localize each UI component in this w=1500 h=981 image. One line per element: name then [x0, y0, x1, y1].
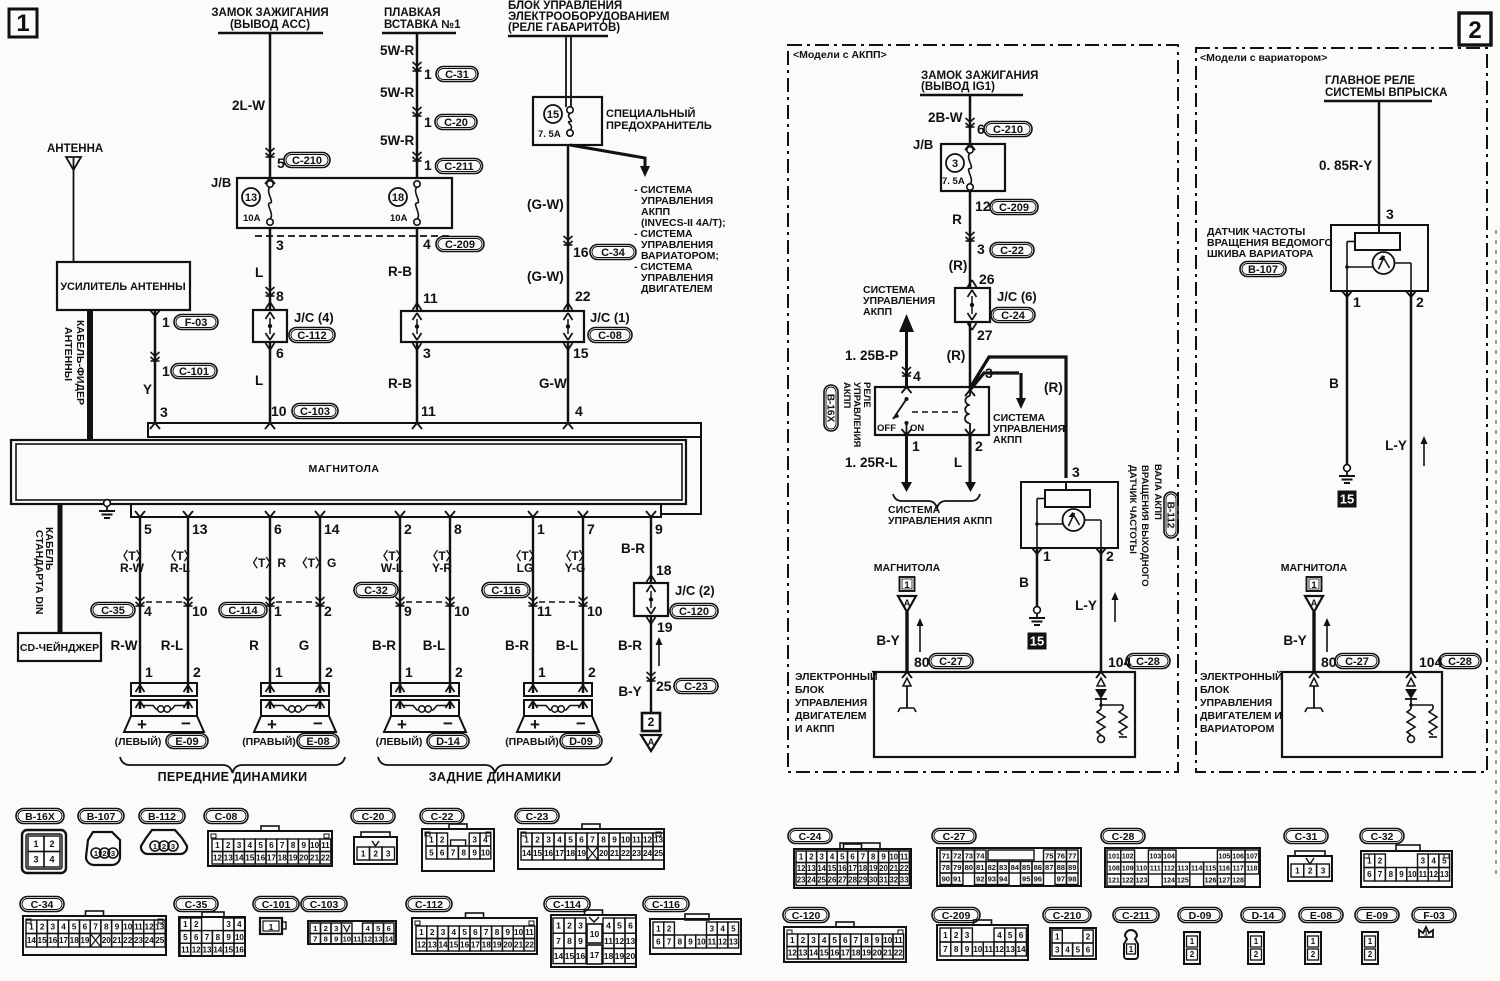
svg-text:18: 18 — [70, 936, 80, 945]
svg-text:2: 2 — [374, 850, 379, 859]
svg-text:УПРАВЛЕНИЯ: УПРАВЛЕНИЯ — [795, 697, 867, 709]
wire B from sensor pin 1 to ground 15 — [1036, 548, 1039, 607]
svg-text:118: 118 — [1246, 866, 1257, 873]
svg-text:2: 2 — [567, 921, 572, 931]
svg-text:1: 1 — [1367, 857, 1372, 866]
svg-text:19: 19 — [657, 619, 673, 635]
wire B-Y from magnitola ref to ECU pin 80 CVT — [1312, 612, 1315, 672]
svg-text:3: 3 — [160, 404, 168, 420]
svg-text:121: 121 — [1108, 878, 1120, 885]
svg-text:13: 13 — [192, 521, 208, 537]
svg-text:10: 10 — [192, 603, 208, 619]
connector pinout C-28 — [1101, 829, 1145, 844]
svg-text:98: 98 — [1068, 875, 1076, 884]
svg-text:5: 5 — [429, 849, 434, 858]
svg-text:A: A — [904, 598, 911, 608]
svg-text:1: 1 — [1353, 294, 1361, 310]
svg-text:−: − — [576, 714, 586, 733]
svg-text:14: 14 — [438, 941, 448, 950]
svg-text:4: 4 — [144, 603, 152, 619]
svg-text:R: R — [249, 638, 259, 653]
svg-text:9: 9 — [334, 935, 338, 944]
svg-text:3: 3 — [441, 928, 446, 937]
svg-text:10: 10 — [587, 603, 603, 619]
svg-text:<Модели с вариатором>: <Модели с вариатором> — [1200, 52, 1327, 64]
svg-text:10: 10 — [235, 933, 244, 942]
svg-text:C-28: C-28 — [1136, 656, 1160, 668]
svg-text:C-22: C-22 — [1000, 245, 1024, 257]
svg-text:11: 11 — [537, 603, 552, 619]
svg-text:18: 18 — [604, 951, 614, 961]
svg-text:5: 5 — [1008, 931, 1013, 940]
svg-text:7: 7 — [484, 928, 489, 937]
magnitola outer frame right side — [661, 437, 701, 514]
svg-text:3: 3 — [546, 836, 551, 845]
junction connector J/C(4) C-112 — [253, 310, 287, 342]
connector pinout C-24 — [788, 829, 832, 844]
driven pulley speed sensor B-107 box — [1331, 225, 1428, 291]
connector label C-27 pin 80 CVT — [1335, 654, 1379, 669]
svg-text:B-Y: B-Y — [618, 684, 641, 699]
svg-text:B: B — [1019, 575, 1029, 590]
svg-text:1: 1 — [29, 923, 34, 932]
svg-text:26: 26 — [979, 271, 995, 287]
svg-text:B-Y: B-Y — [1283, 633, 1306, 648]
wire Y from amplifier to magnitola pin 3 — [154, 310, 157, 423]
svg-text:6: 6 — [83, 923, 88, 932]
svg-text:+: + — [397, 715, 407, 734]
svg-text:2: 2 — [49, 839, 54, 849]
svg-text:19: 19 — [80, 936, 90, 945]
svg-text:1: 1 — [1368, 937, 1373, 946]
svg-text:9: 9 — [578, 936, 583, 946]
svg-text:10: 10 — [310, 841, 320, 850]
svg-text:Y-R: Y-R — [432, 561, 452, 575]
svg-text:ЗАМОК ЗАЖИГАНИЯ: ЗАМОК ЗАЖИГАНИЯ — [211, 7, 328, 19]
svg-text:15: 15 — [1030, 634, 1044, 649]
svg-text:7: 7 — [1378, 870, 1383, 879]
ground at magnitola — [106, 499, 108, 501]
svg-text:9: 9 — [472, 849, 477, 858]
wire speaker pin 13 — [183, 511, 188, 517]
wire G-W from J/C(1) to magnitola pin 4 — [567, 342, 570, 423]
svg-text:10: 10 — [889, 853, 898, 862]
svg-text:25: 25 — [656, 678, 672, 694]
svg-text:21: 21 — [610, 849, 620, 858]
connector label C-116 — [482, 583, 530, 598]
svg-text:ВРАЩЕНИЯ ВЫХОДНОГО: ВРАЩЕНИЯ ВЫХОДНОГО — [1139, 465, 1150, 587]
svg-text:15: 15 — [38, 936, 48, 945]
connector label B-16X rotated — [824, 385, 838, 431]
svg-text:8: 8 — [454, 521, 462, 537]
svg-text:G: G — [299, 638, 310, 653]
svg-text:2: 2 — [440, 836, 445, 845]
svg-text:7: 7 — [861, 853, 865, 862]
svg-text:11: 11 — [353, 935, 362, 944]
svg-text:11: 11 — [604, 936, 613, 946]
svg-text:4: 4 — [822, 936, 827, 945]
svg-text:АКПП: АКПП — [841, 382, 852, 408]
wire L from J/C(4) to magnitola pin 10 — [269, 342, 272, 423]
CVT panel dash-dot border — [1196, 48, 1487, 772]
svg-text:22: 22 — [900, 864, 909, 873]
svg-text:32: 32 — [889, 876, 898, 885]
connector pinout C-120 — [783, 908, 829, 923]
CD standard DIN cable thick wire — [58, 504, 63, 633]
svg-text:ЭЛЕКТРОННЫЙ: ЭЛЕКТРОННЫЙ — [1200, 670, 1283, 683]
svg-text:16: 16 — [235, 945, 244, 954]
dashed connector pair links — [146, 601, 182, 603]
svg-text:D-09: D-09 — [1189, 910, 1212, 922]
svg-text:88: 88 — [1057, 863, 1065, 872]
wire 2B-W to J/B fuse 3 — [969, 95, 972, 144]
wire speaker pin 14 — [315, 511, 320, 517]
svg-text:17: 17 — [848, 864, 857, 873]
svg-text:C-112: C-112 — [297, 330, 326, 342]
antenna amplifier box (УСИЛИТЕЛЬ АНТЕННЫ) — [57, 262, 190, 310]
svg-text:11: 11 — [181, 945, 190, 954]
connector pinout F-03 — [1412, 908, 1456, 923]
svg-text:14: 14 — [234, 854, 244, 863]
svg-text:OFF: OFF — [877, 423, 896, 434]
svg-text:C-210: C-210 — [993, 124, 1023, 136]
svg-text:96: 96 — [1034, 875, 1042, 884]
svg-text:ПЕРЕДНИЕ ДИНАМИКИ: ПЕРЕДНИЕ ДИНАМИКИ — [158, 770, 308, 784]
svg-text:5W-R: 5W-R — [380, 85, 414, 100]
svg-text:108: 108 — [1108, 866, 1120, 873]
svg-text:(РЕЛЕ ГАБАРИТОВ): (РЕЛЕ ГАБАРИТОВ) — [508, 22, 620, 34]
svg-text:9: 9 — [612, 836, 617, 845]
svg-text:7: 7 — [205, 933, 210, 942]
svg-text:D-14: D-14 — [436, 736, 461, 748]
svg-text:80: 80 — [965, 863, 973, 872]
svg-text:17: 17 — [555, 849, 565, 858]
svg-text:8: 8 — [864, 936, 869, 945]
svg-text:114: 114 — [1191, 866, 1202, 873]
svg-text:УПРАВЛЕНИЯ: УПРАВЛЕНИЯ — [1200, 697, 1272, 709]
svg-text:5: 5 — [568, 836, 573, 845]
connector pinout C-211 — [1113, 908, 1159, 923]
svg-text:10: 10 — [271, 403, 287, 419]
svg-text:2L-W: 2L-W — [232, 98, 265, 113]
svg-text:11: 11 — [984, 945, 993, 954]
svg-text:1: 1 — [1190, 937, 1195, 946]
svg-text:1: 1 — [656, 924, 661, 933]
svg-text:C-32: C-32 — [1371, 831, 1394, 843]
svg-text:103: 103 — [1149, 854, 1161, 861]
svg-text:2: 2 — [1416, 294, 1424, 310]
svg-text:4: 4 — [913, 368, 921, 384]
svg-text:16: 16 — [48, 936, 58, 945]
svg-text:1: 1 — [405, 664, 413, 680]
svg-text:L: L — [255, 373, 263, 388]
svg-text:82: 82 — [988, 863, 996, 872]
svg-text:11: 11 — [708, 937, 717, 946]
svg-text:13: 13 — [1440, 870, 1449, 879]
svg-text:(ВЫВОД АСС): (ВЫВОД АСС) — [230, 19, 310, 31]
svg-text:8: 8 — [495, 928, 500, 937]
svg-text:8: 8 — [104, 923, 109, 932]
svg-text:2: 2 — [102, 849, 106, 858]
svg-text:77: 77 — [1068, 852, 1076, 861]
connector pinout C-112 — [406, 897, 452, 912]
svg-text:7: 7 — [587, 521, 595, 537]
svg-text:15: 15 — [573, 345, 589, 361]
svg-text:18: 18 — [656, 562, 672, 578]
svg-text:C-101: C-101 — [179, 366, 209, 378]
svg-text:3: 3 — [1055, 945, 1060, 954]
svg-text:4: 4 — [423, 236, 431, 252]
svg-text:17: 17 — [590, 950, 600, 960]
svg-text:4: 4 — [61, 923, 66, 932]
svg-text:C-32: C-32 — [364, 585, 388, 597]
svg-text:6: 6 — [274, 521, 282, 537]
svg-text:J/C (6): J/C (6) — [997, 289, 1037, 304]
antenna feeder cable thick wire — [87, 310, 93, 440]
svg-text:2: 2 — [809, 853, 814, 862]
svg-text:ПЛАВКАЯ: ПЛАВКАЯ — [384, 7, 441, 19]
connector label C-35 — [91, 603, 135, 618]
svg-text:C-27: C-27 — [1345, 656, 1369, 668]
svg-text:1: 1 — [94, 849, 98, 858]
wire speaker pin 1 — [528, 511, 533, 517]
svg-text:〈T〉G: 〈T〉G — [296, 555, 337, 570]
svg-text:28: 28 — [848, 876, 857, 885]
svg-text:7: 7 — [313, 935, 317, 944]
wire R-B from fuse 18 to J/C(1) — [416, 228, 419, 311]
wire speaker pin 8 — [445, 511, 450, 517]
svg-text:13: 13 — [798, 949, 808, 958]
svg-text:22: 22 — [621, 849, 631, 858]
svg-text:13: 13 — [155, 923, 165, 932]
svg-text:12: 12 — [643, 836, 653, 845]
relay internal dashed link — [912, 411, 962, 413]
svg-text:27: 27 — [838, 876, 847, 885]
svg-text:21: 21 — [883, 949, 893, 958]
connector pinout C-116 — [643, 897, 689, 912]
svg-text:(G-W): (G-W) — [527, 269, 564, 284]
svg-text:3: 3 — [1321, 867, 1326, 876]
svg-text:Y-G: Y-G — [565, 561, 586, 575]
wire R from J/B to J/C(6) — [969, 191, 972, 288]
svg-text:9: 9 — [302, 841, 307, 850]
connector label C-28 pin 104 AKPP — [1126, 654, 1170, 669]
svg-text:1: 1 — [537, 521, 545, 537]
svg-text:17: 17 — [267, 854, 277, 863]
svg-text:2: 2 — [1086, 932, 1091, 941]
svg-text:22: 22 — [894, 949, 904, 958]
svg-text:КАБЕЛЬ-ФИДЕР: КАБЕЛЬ-ФИДЕР — [74, 320, 86, 405]
svg-text:J/B: J/B — [211, 175, 231, 190]
svg-text:3: 3 — [171, 842, 175, 851]
svg-text:УСИЛИТЕЛЬ АНТЕННЫ: УСИЛИТЕЛЬ АНТЕННЫ — [60, 281, 185, 293]
svg-text:15: 15 — [820, 949, 830, 958]
svg-text:−: − — [443, 714, 453, 733]
svg-text:−: − — [313, 714, 323, 733]
svg-text:8: 8 — [276, 288, 284, 304]
svg-text:14: 14 — [817, 864, 826, 873]
svg-text:L: L — [954, 455, 962, 470]
page reference box 2 with triangle A — [642, 713, 660, 731]
svg-text:L: L — [255, 265, 263, 280]
connector pinout C-31 — [1284, 829, 1328, 844]
svg-text:R-W: R-W — [111, 638, 138, 653]
svg-text:76: 76 — [1057, 852, 1065, 861]
svg-text:<Модели с АКПП>: <Модели с АКПП> — [793, 49, 887, 61]
svg-text:C-27: C-27 — [943, 831, 966, 843]
svg-text:C-34: C-34 — [31, 899, 54, 911]
wire speaker pin 5 — [135, 511, 140, 517]
connector pinout C-210 — [1043, 908, 1091, 923]
svg-text:ГЛАВНОЕ РЕЛЕ: ГЛАВНОЕ РЕЛЕ — [1325, 75, 1415, 87]
svg-text:109: 109 — [1122, 866, 1134, 873]
svg-text:АНТЕННА: АНТЕННА — [47, 143, 103, 155]
svg-text:(ЛЕВЫЙ): (ЛЕВЫЙ) — [376, 735, 423, 748]
svg-text:B-16X: B-16X — [824, 394, 835, 423]
svg-text:АКПП: АКПП — [993, 434, 1022, 446]
svg-text:C-209: C-209 — [999, 202, 1029, 214]
svg-text:ON: ON — [910, 423, 924, 434]
connector pinout C-08 — [204, 809, 248, 824]
svg-text:СТАНДАРТА DIN: СТАНДАРТА DIN — [33, 530, 45, 615]
svg-text:84: 84 — [1011, 863, 1020, 872]
svg-text:C-35: C-35 — [101, 605, 125, 617]
connector label B-112 rotated — [1164, 492, 1178, 538]
svg-text:83: 83 — [999, 863, 1007, 872]
svg-text:БЛОК: БЛОК — [795, 684, 825, 696]
svg-text:14: 14 — [554, 951, 564, 961]
svg-text:C-08: C-08 — [215, 811, 238, 823]
svg-text:11: 11 — [894, 936, 903, 945]
svg-text:9: 9 — [115, 923, 120, 932]
svg-text:2: 2 — [535, 836, 540, 845]
svg-text:9: 9 — [881, 853, 886, 862]
svg-text:10: 10 — [123, 923, 133, 932]
svg-text:C-31: C-31 — [445, 69, 469, 81]
svg-text:−: − — [181, 714, 191, 733]
svg-text:8: 8 — [601, 836, 606, 845]
svg-text:23: 23 — [797, 876, 806, 885]
svg-text:5: 5 — [1076, 945, 1081, 954]
connector pinout C-22 — [420, 809, 464, 824]
svg-text:B-L: B-L — [556, 638, 579, 653]
svg-text:124: 124 — [1163, 878, 1175, 885]
svg-text:2B-W: 2B-W — [928, 110, 963, 125]
connector pinout C-23 — [515, 809, 559, 824]
magnitola bottom connector strip — [131, 504, 661, 517]
svg-text:2: 2 — [1254, 950, 1259, 959]
svg-text:3: 3 — [811, 936, 816, 945]
page number box 1 — [9, 9, 37, 37]
svg-text:6: 6 — [850, 853, 855, 862]
thick wire R arrow to AKPP control system — [970, 373, 1019, 390]
svg-text:8: 8 — [567, 936, 572, 946]
fuse 18 10A — [389, 188, 407, 206]
svg-text:3: 3 — [977, 241, 985, 257]
svg-text:89: 89 — [1068, 863, 1076, 872]
svg-text:13: 13 — [654, 836, 664, 845]
svg-text:2: 2 — [1190, 950, 1195, 959]
rear left speaker D-14 — [391, 683, 459, 696]
svg-text:1: 1 — [145, 664, 153, 680]
svg-text:1: 1 — [269, 922, 274, 932]
svg-text:J/C (4): J/C (4) — [294, 310, 334, 325]
svg-text:2: 2 — [1308, 867, 1313, 876]
svg-text:16: 16 — [256, 854, 266, 863]
svg-text:15: 15 — [245, 854, 255, 863]
svg-text:6: 6 — [1086, 945, 1091, 954]
svg-text:80: 80 — [914, 654, 930, 670]
svg-text:2: 2 — [1311, 950, 1316, 959]
svg-text:5W-R: 5W-R — [380, 133, 414, 148]
svg-text:3: 3 — [237, 841, 242, 850]
svg-text:Y: Y — [143, 382, 152, 397]
svg-text:3: 3 — [1421, 857, 1426, 866]
relay switch OFF ON — [902, 387, 907, 393]
svg-text:90: 90 — [942, 875, 950, 884]
svg-text:11: 11 — [1419, 870, 1428, 879]
svg-text:7. 5A: 7. 5A — [538, 129, 561, 140]
svg-text:95: 95 — [1022, 875, 1031, 884]
magnitola top connector strip — [148, 423, 701, 437]
svg-text:1: 1 — [943, 931, 948, 940]
svg-text:C-20: C-20 — [362, 811, 385, 823]
ECU CVT box (ЭЛЕКТРОННЫЙ БЛОК УПРАВЛЕНИЯ ДВИГАТЕЛЕМ И ВАРИАТОРОМ) — [1282, 672, 1442, 757]
svg-text:B-R: B-R — [372, 638, 396, 653]
svg-text:19: 19 — [615, 951, 625, 961]
svg-text:C-08: C-08 — [598, 330, 622, 342]
connector label C-22 pin 3 — [990, 243, 1034, 258]
svg-text:91: 91 — [953, 875, 962, 884]
svg-text:3: 3 — [111, 849, 115, 858]
svg-text:12: 12 — [145, 923, 155, 932]
svg-text:15: 15 — [547, 109, 559, 121]
svg-text:11: 11 — [900, 853, 909, 862]
svg-text:8: 8 — [324, 935, 328, 944]
svg-text:C-28: C-28 — [1112, 831, 1135, 843]
svg-text:C-116: C-116 — [652, 899, 680, 911]
relay coil — [965, 396, 970, 423]
svg-text:1: 1 — [1295, 867, 1300, 876]
fuse 13 10A — [242, 188, 260, 206]
svg-text:22: 22 — [321, 854, 331, 863]
svg-text:107: 107 — [1246, 854, 1258, 861]
svg-text:B-107: B-107 — [87, 811, 116, 823]
svg-text:21: 21 — [889, 864, 898, 873]
svg-text:5: 5 — [731, 924, 736, 933]
svg-text:2: 2 — [325, 664, 333, 680]
svg-text:C-211: C-211 — [444, 161, 473, 173]
CD-changer box (CD-ЧЕЙНДЖЕР) — [18, 633, 101, 661]
svg-text:АНТЕННЫ: АНТЕННЫ — [62, 327, 74, 381]
junction connector J/C(6) C-24 — [955, 288, 990, 322]
svg-text:87: 87 — [1045, 863, 1053, 872]
svg-text:17: 17 — [471, 941, 481, 950]
connector pinout C-34 — [20, 897, 64, 912]
svg-text:3: 3 — [952, 158, 958, 170]
svg-text:C-210: C-210 — [1053, 910, 1082, 922]
connector label C-32 — [354, 583, 398, 598]
svg-text:6: 6 — [1367, 870, 1372, 879]
connector pinout E-09 — [1355, 908, 1399, 923]
svg-text:2: 2 — [162, 842, 166, 851]
connector label F-03 pin 1 — [174, 315, 218, 330]
svg-text:127: 127 — [1218, 878, 1230, 885]
svg-text:ДВИГАТЕЛЕМ: ДВИГАТЕЛЕМ — [641, 283, 713, 295]
svg-text:C-20: C-20 — [444, 117, 468, 129]
svg-text:116: 116 — [1219, 866, 1230, 873]
svg-text:31: 31 — [879, 876, 888, 885]
